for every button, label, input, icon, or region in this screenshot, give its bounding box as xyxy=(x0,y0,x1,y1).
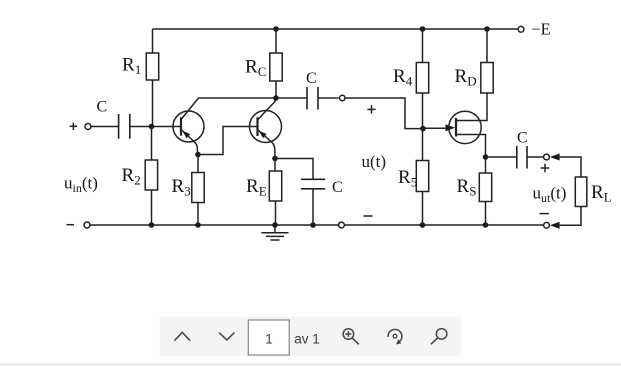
wire RL bottom to arrowhead xyxy=(560,207,581,226)
resistor RE xyxy=(269,159,281,226)
svg-text:uin(t): uin(t) xyxy=(64,174,98,196)
JFET T1 xyxy=(449,93,487,157)
transistor Q1 xyxy=(173,98,204,155)
svg-text:RE: RE xyxy=(246,176,267,199)
node dot R5 ground xyxy=(420,222,426,228)
svg-text:C: C xyxy=(97,99,108,116)
wire source to output C xyxy=(486,156,517,158)
toolbar background xyxy=(160,317,461,357)
svg-text:−E: −E xyxy=(531,20,550,39)
svg-text:R2: R2 xyxy=(122,165,141,188)
wire Q1 collector rail to coupling C xyxy=(199,97,307,99)
node dot RC top xyxy=(273,26,279,32)
svg-text:1: 1 xyxy=(265,331,273,346)
node dot Q1 emitter xyxy=(195,152,201,158)
capacitor C output xyxy=(517,146,527,169)
resistor RC xyxy=(270,29,282,98)
wire output C to terminal xyxy=(527,156,544,158)
minus sign u(t) xyxy=(364,215,373,217)
node dot R4 top xyxy=(420,26,426,32)
wire C to Q1 base xyxy=(130,126,181,128)
plus sign u(t) xyxy=(367,105,375,113)
node dot Q1 base xyxy=(149,124,155,130)
wire Q1 emitter to Q2 base xyxy=(198,127,258,155)
wire arrowhead to RL top xyxy=(560,157,581,177)
minus sign input xyxy=(67,224,75,226)
svg-text:R1: R1 xyxy=(122,55,141,78)
svg-text:uut(t): uut(t) xyxy=(533,184,567,206)
svg-text:RC: RC xyxy=(245,57,266,80)
ground symbol xyxy=(261,225,288,240)
resistor RL xyxy=(575,177,587,207)
capacitor C input xyxy=(119,114,130,139)
gate arrowhead xyxy=(446,124,456,131)
svg-text:R4: R4 xyxy=(393,66,413,89)
plus sign u_ut xyxy=(541,164,550,173)
svg-text:C: C xyxy=(306,70,317,87)
svg-text:av 1: av 1 xyxy=(294,331,320,346)
wire input terminal to C xyxy=(91,126,118,128)
wire u(t) terminal to gate node xyxy=(344,98,423,129)
node dot source xyxy=(483,154,489,160)
node dot RD top xyxy=(484,26,490,32)
svg-text:RL: RL xyxy=(591,182,612,205)
svg-text:R5: R5 xyxy=(398,167,417,190)
icon previous page chevron up xyxy=(174,332,190,340)
terminal u(t) minus xyxy=(339,222,345,228)
resistor R1 xyxy=(146,29,158,127)
node dot RS ground xyxy=(483,222,489,228)
svg-text:RD: RD xyxy=(455,66,477,89)
node dot R2 ground xyxy=(149,222,155,228)
svg-text:RS: RS xyxy=(457,176,477,199)
wire top supply rail xyxy=(153,28,519,30)
wire bypass C to ground xyxy=(312,189,314,225)
wire ground rail right segment xyxy=(344,224,544,226)
arrowhead output top xyxy=(550,154,560,161)
bottom divider line xyxy=(0,364,621,365)
svg-text:C: C xyxy=(517,130,528,147)
icon search xyxy=(431,329,447,345)
page number input box xyxy=(248,320,289,355)
node dot bypass C ground xyxy=(310,222,316,228)
node dot RE ground xyxy=(272,222,278,228)
svg-text:R3: R3 xyxy=(172,176,191,199)
icon zoom in xyxy=(343,329,359,345)
wire Q2 emitter to bypass C xyxy=(275,159,313,180)
arrowhead output bottom xyxy=(550,222,560,229)
resistor R3 xyxy=(192,155,204,226)
terminal u(t) plus xyxy=(340,95,345,100)
icon next page chevron down xyxy=(219,333,234,340)
node dot collector RC xyxy=(273,95,279,101)
capacitor C bypass xyxy=(301,179,325,189)
wire ground rail left segment xyxy=(90,224,338,226)
wire gate node to JFET xyxy=(423,127,447,129)
node dot R3 ground xyxy=(195,222,201,228)
terminal input bottom xyxy=(84,222,90,228)
input terminal circle xyxy=(85,124,91,130)
node dot gate xyxy=(420,126,426,132)
node dot Q2 emitter xyxy=(272,156,278,162)
svg-text:u(t): u(t) xyxy=(362,152,387,171)
resistor R5 xyxy=(416,129,428,225)
terminal u_ut plus xyxy=(544,154,550,160)
bottom strip xyxy=(0,365,621,367)
wire coupling C to u(t) terminal xyxy=(318,97,339,99)
capacitor C coupling xyxy=(307,87,318,110)
resistor RS xyxy=(479,157,491,225)
resistor R2 xyxy=(145,127,157,226)
resistor R4 xyxy=(416,29,428,129)
resistor RD xyxy=(481,29,493,93)
minus sign u_ut xyxy=(540,213,550,215)
terminal u_ut minus xyxy=(544,222,550,228)
plus sign input xyxy=(70,123,77,130)
svg-text:C: C xyxy=(332,179,343,196)
terminal -E xyxy=(518,26,524,32)
transistor Q2 xyxy=(250,98,282,159)
icon rotate xyxy=(388,329,402,344)
